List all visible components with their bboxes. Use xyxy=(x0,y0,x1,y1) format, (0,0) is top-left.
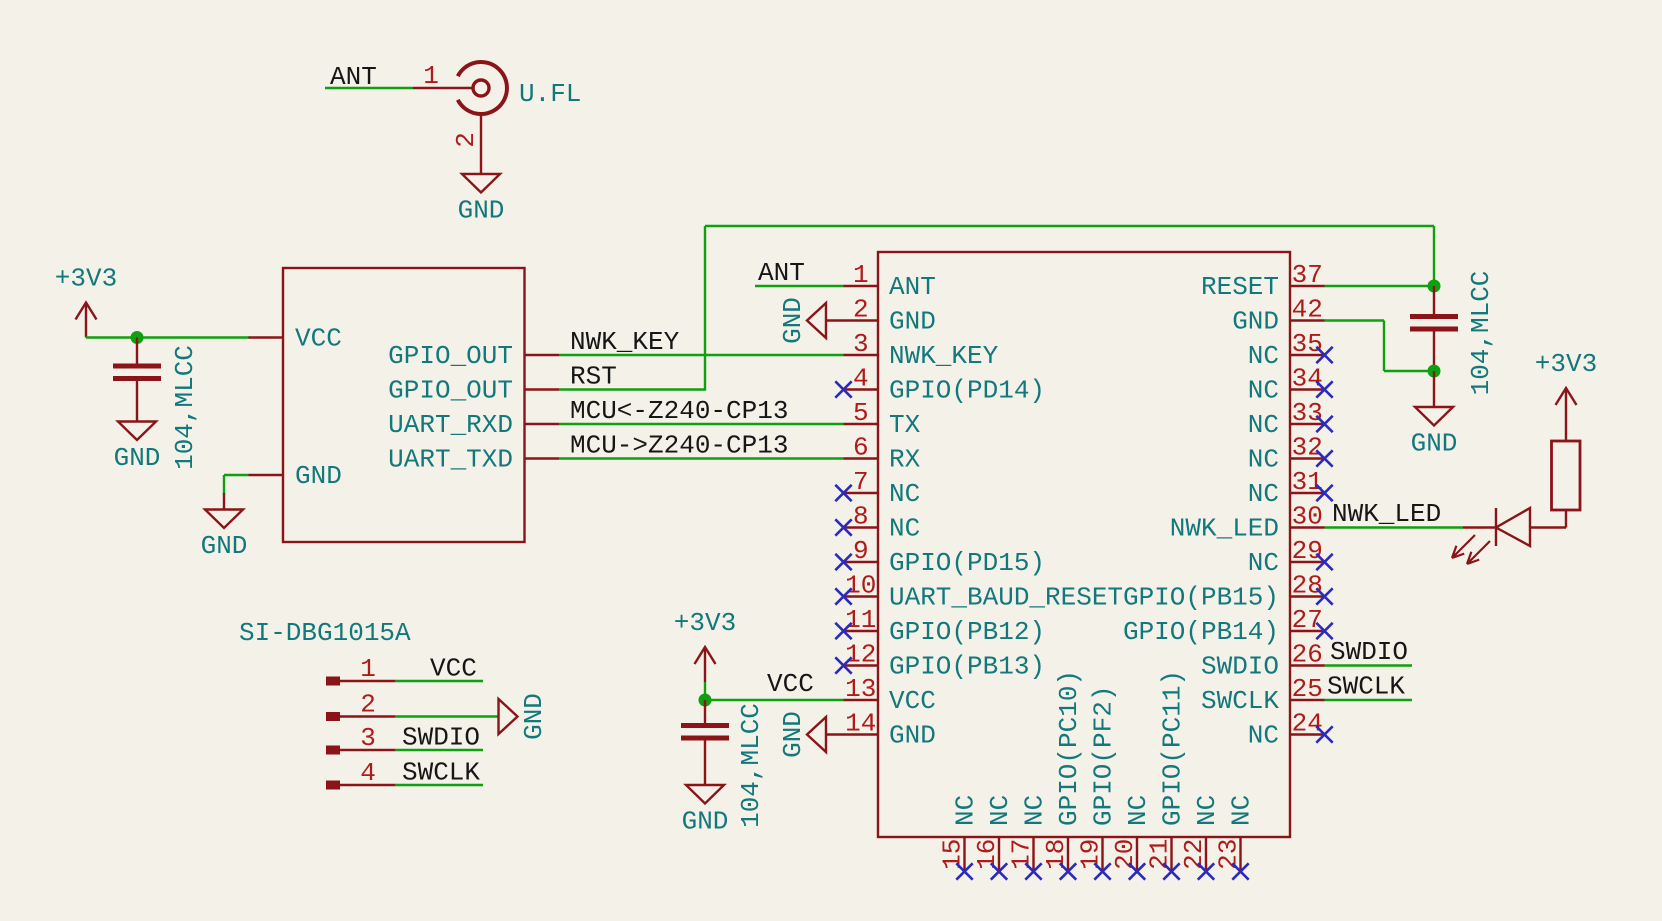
ground below J1 xyxy=(462,174,500,193)
U1 pin 14 GND (left) xyxy=(844,733,879,735)
U1 pin 10 UART_BAUD_RESET (left) xyxy=(844,595,879,597)
power +3V3 (left) xyxy=(85,305,87,338)
capacitor C3 bottom lead xyxy=(704,741,706,786)
svg-text:1: 1 xyxy=(360,654,376,684)
svg-text:VCC: VCC xyxy=(889,686,936,716)
svg-text:17: 17 xyxy=(1007,839,1037,870)
U1 pin 3 NWK_KEY (left) xyxy=(844,354,879,356)
svg-text:ANT: ANT xyxy=(330,62,377,92)
junction node +3V3/C1 xyxy=(131,331,144,344)
svg-text:15: 15 xyxy=(938,839,968,870)
svg-text:16: 16 xyxy=(972,839,1002,870)
svg-text:+3V3: +3V3 xyxy=(674,608,736,638)
svg-text:NC: NC xyxy=(1248,376,1279,406)
svg-text:GPIO(PB13): GPIO(PB13) xyxy=(889,652,1045,682)
wire J2 pin 4 net SWCLK xyxy=(395,784,483,786)
svg-text:GPIO(PB12): GPIO(PB12) xyxy=(889,617,1045,647)
svg-text:18: 18 xyxy=(1041,839,1071,870)
svg-text:GPIO(PB14): GPIO(PB14) xyxy=(1123,617,1279,647)
wire net ANT to U1 pin 1 xyxy=(755,285,844,287)
wire net SWDIO xyxy=(1325,664,1413,666)
J1 pin 1 xyxy=(413,87,473,89)
svg-text:+3V3: +3V3 xyxy=(55,264,117,294)
svg-text:10: 10 xyxy=(845,571,876,601)
ground flag J2 pin 2 xyxy=(499,699,518,734)
module U2 body xyxy=(283,268,525,542)
wire J2 pin 3 net SWDIO xyxy=(395,749,483,751)
U1 pin 35 NC (right) xyxy=(1290,354,1325,356)
svg-text:GPIO(PD15): GPIO(PD15) xyxy=(889,548,1045,578)
svg-text:19: 19 xyxy=(1076,839,1106,870)
svg-text:ANT: ANT xyxy=(758,258,805,288)
ground flag U1 pin 2 xyxy=(826,319,844,321)
junction node RESET/C2 xyxy=(1428,280,1441,293)
svg-text:RX: RX xyxy=(889,445,921,475)
svg-text:SWDIO: SWDIO xyxy=(1201,652,1279,682)
svg-text:NWK_LED: NWK_LED xyxy=(1332,499,1441,529)
LED D1 emission arrows xyxy=(1452,535,1475,558)
svg-text:13: 13 xyxy=(845,674,876,704)
wire J2 pin 2 to ground flag xyxy=(395,715,499,717)
svg-text:GPIO(PC11): GPIO(PC11) xyxy=(1158,670,1188,826)
svg-text:NC: NC xyxy=(1123,795,1153,826)
power +3V3 (right) xyxy=(1565,390,1567,423)
svg-text:NC: NC xyxy=(1248,410,1279,440)
svg-text:4: 4 xyxy=(853,364,869,394)
svg-text:GND: GND xyxy=(519,693,549,740)
svg-text:32: 32 xyxy=(1292,433,1323,463)
svg-text:29: 29 xyxy=(1292,536,1323,566)
wire +3V3 to U1 VCC pin 13 xyxy=(704,682,706,700)
svg-text:SI-DBG1015A: SI-DBG1015A xyxy=(239,618,411,648)
svg-text:GND: GND xyxy=(778,711,808,758)
svg-text:+3V3: +3V3 xyxy=(1535,349,1597,379)
U2 pin UART_TXD xyxy=(525,457,560,459)
U1 pin 12 GPIO(PB13) (left) xyxy=(844,664,879,666)
resistor R1 xyxy=(1565,423,1567,441)
svg-text:104,MLCC: 104,MLCC xyxy=(736,703,766,828)
IC U1 body xyxy=(878,252,1290,837)
wire J2 pin 1 net VCC xyxy=(395,680,483,682)
svg-text:2: 2 xyxy=(451,132,481,148)
U1 pin 8 NC (left) xyxy=(844,526,879,528)
wire net MCU<-Z240-CP13 xyxy=(559,423,844,425)
wire net NWK_LED xyxy=(1325,526,1464,528)
U1 pin 29 NC (right) xyxy=(1290,561,1325,563)
wire +3V3 to U2 VCC xyxy=(86,336,250,338)
svg-text:11: 11 xyxy=(845,605,876,635)
svg-text:33: 33 xyxy=(1292,398,1323,428)
svg-text:VCC: VCC xyxy=(295,324,342,354)
svg-text:GPIO(PB15): GPIO(PB15) xyxy=(1123,583,1279,613)
svg-text:TX: TX xyxy=(889,410,921,440)
svg-text:ANT: ANT xyxy=(889,272,936,302)
ground below C3 xyxy=(686,785,724,804)
ground lead xyxy=(223,493,225,510)
svg-text:UART_TXD: UART_TXD xyxy=(388,445,513,475)
U1 pin 37 RESET (right) xyxy=(1290,285,1325,287)
U1 pin 2 GND (left) xyxy=(844,319,879,321)
U1 pin 18 GPIO(PC10) (bottom) xyxy=(1067,837,1069,872)
svg-text:GPIO(PF2): GPIO(PF2) xyxy=(1089,686,1119,826)
capacitor C3 top lead xyxy=(704,700,706,723)
svg-text:GPIO_OUT: GPIO_OUT xyxy=(388,376,513,406)
svg-text:RST: RST xyxy=(570,362,617,392)
svg-text:NC: NC xyxy=(1192,795,1222,826)
svg-text:NC: NC xyxy=(1248,479,1279,509)
U1 pin 17 NC (bottom) xyxy=(1032,837,1034,872)
svg-text:NC: NC xyxy=(889,479,920,509)
J2 pin 4 xyxy=(326,781,340,790)
ground lead below C2 xyxy=(1433,371,1435,407)
junction node GND/C2 xyxy=(1428,365,1441,378)
svg-text:VCC: VCC xyxy=(430,654,477,684)
svg-text:26: 26 xyxy=(1292,640,1323,670)
wire net ANT to J1 xyxy=(325,87,413,89)
svg-text:RESET: RESET xyxy=(1201,272,1279,302)
U1 pin 15 NC (bottom) xyxy=(963,837,965,872)
svg-text:1: 1 xyxy=(853,260,869,290)
svg-text:MCU<-Z240-CP13: MCU<-Z240-CP13 xyxy=(570,396,788,426)
svg-text:SWCLK: SWCLK xyxy=(1201,686,1279,716)
svg-text:31: 31 xyxy=(1292,467,1323,497)
wire net RST xyxy=(559,388,705,390)
svg-text:GND: GND xyxy=(778,297,808,344)
svg-text:SWDIO: SWDIO xyxy=(1330,637,1408,667)
U2 pin GPIO_OUT (row 2) xyxy=(525,388,560,390)
U1 pin 28 GPIO(PB15) (right) xyxy=(1290,595,1325,597)
svg-text:23: 23 xyxy=(1214,839,1244,870)
ground below C1 xyxy=(118,422,156,441)
wire net NWK_KEY xyxy=(559,354,844,356)
U2 pin VCC xyxy=(249,336,284,338)
svg-text:NWK_KEY: NWK_KEY xyxy=(570,327,680,357)
capacitor C2 top lead xyxy=(1433,286,1435,314)
svg-text:7: 7 xyxy=(853,467,869,497)
svg-text:35: 35 xyxy=(1292,329,1323,359)
svg-text:NC: NC xyxy=(1020,795,1050,826)
U2 pin GPIO_OUT (row 1) xyxy=(525,354,560,356)
wire net SWCLK xyxy=(1325,699,1413,701)
svg-text:UART_RXD: UART_RXD xyxy=(388,410,513,440)
svg-text:20: 20 xyxy=(1110,839,1140,870)
U1 pin 7 NC (left) xyxy=(844,492,879,494)
svg-text:NC: NC xyxy=(889,514,920,544)
power +3V3 (middle) xyxy=(704,649,706,682)
junction node VCC/C3 xyxy=(699,694,712,707)
svg-text:104,MLCC: 104,MLCC xyxy=(1466,271,1496,396)
svg-text:6: 6 xyxy=(853,433,869,463)
svg-text:U.FL: U.FL xyxy=(519,79,581,109)
svg-text:GND: GND xyxy=(682,807,729,837)
U1 pin 19 GPIO(PF2) (bottom) xyxy=(1101,837,1103,872)
svg-text:NC: NC xyxy=(1248,341,1279,371)
svg-text:SWDIO: SWDIO xyxy=(402,723,480,753)
U1 pin 25 SWCLK (right) xyxy=(1290,699,1325,701)
U1 pin 31 NC (right) xyxy=(1290,492,1325,494)
U1 pin 16 NC (bottom) xyxy=(998,837,1000,872)
ground below C2 xyxy=(1415,407,1453,426)
U1 pin 22 NC (bottom) xyxy=(1205,837,1207,872)
U1 pin 33 NC (right) xyxy=(1290,423,1325,425)
svg-text:NC: NC xyxy=(1248,721,1279,751)
wire U2 GND to ground xyxy=(224,474,249,476)
svg-text:28: 28 xyxy=(1292,571,1323,601)
capacitor C1 lead xyxy=(136,338,138,365)
U1 pin 26 SWDIO (right) xyxy=(1290,664,1325,666)
svg-text:VCC: VCC xyxy=(767,669,814,699)
U2 pin UART_RXD xyxy=(525,423,560,425)
svg-text:104,MLCC: 104,MLCC xyxy=(170,345,200,470)
svg-text:UART_BAUD_RESET: UART_BAUD_RESET xyxy=(889,583,1123,613)
svg-text:22: 22 xyxy=(1179,839,1209,870)
U1 pin 5 TX (left) xyxy=(844,423,879,425)
capacitor C2 104,MLCC xyxy=(1410,314,1458,319)
U2 pin GND xyxy=(249,474,284,476)
svg-text:NC: NC xyxy=(951,795,981,826)
U1 pin 11 GPIO(PB12) (left) xyxy=(844,630,879,632)
J1 pin 2 xyxy=(480,114,482,174)
svg-text:SWCLK: SWCLK xyxy=(402,758,480,788)
U1 pin 9 GPIO(PD15) (left) xyxy=(844,561,879,563)
svg-text:4: 4 xyxy=(360,758,376,788)
svg-text:NWK_KEY: NWK_KEY xyxy=(889,341,999,371)
U1 pin 30 NWK_LED (right) xyxy=(1290,526,1325,528)
J2 pin 1 xyxy=(326,677,340,686)
capacitor C2 bottom lead xyxy=(1433,332,1435,372)
svg-text:27: 27 xyxy=(1292,605,1323,635)
capacitor C1 bottom lead xyxy=(136,381,138,422)
capacitor C1 104,MLCC xyxy=(113,364,161,369)
capacitor C3 104,MLCC xyxy=(681,723,729,728)
svg-text:NC: NC xyxy=(1227,795,1257,826)
wire U1 pin 42 GND to C2 xyxy=(1325,319,1385,321)
svg-text:GND: GND xyxy=(295,461,342,491)
svg-text:NWK_LED: NWK_LED xyxy=(1170,514,1279,544)
wire RESET to C2 xyxy=(1325,285,1435,287)
svg-text:GND: GND xyxy=(889,721,936,751)
svg-text:NC: NC xyxy=(1248,445,1279,475)
svg-text:3: 3 xyxy=(853,329,869,359)
U1 pin 34 NC (right) xyxy=(1290,388,1325,390)
svg-text:37: 37 xyxy=(1292,260,1323,290)
svg-text:1: 1 xyxy=(423,61,439,91)
J2 pin 2 xyxy=(326,712,340,721)
ground below U2 xyxy=(205,510,243,529)
svg-text:NC: NC xyxy=(985,795,1015,826)
U1 pin 13 VCC (left) xyxy=(844,699,879,701)
svg-text:GND: GND xyxy=(889,307,936,337)
U1 pin 24 NC (right) xyxy=(1290,733,1325,735)
svg-text:2: 2 xyxy=(853,295,869,325)
svg-text:21: 21 xyxy=(1145,839,1175,870)
svg-text:GPIO(PC10): GPIO(PC10) xyxy=(1054,670,1084,826)
ground flag U1 pin 14 xyxy=(826,733,844,735)
svg-text:24: 24 xyxy=(1292,709,1323,739)
U1 pin 42 GND (right) xyxy=(1290,319,1325,321)
svg-text:14: 14 xyxy=(845,709,876,739)
svg-text:12: 12 xyxy=(845,640,876,670)
svg-text:GPIO(PD14): GPIO(PD14) xyxy=(889,376,1045,406)
U1 pin 1 ANT (left) xyxy=(844,285,879,287)
svg-text:25: 25 xyxy=(1292,674,1323,704)
U1 pin 6 RX (left) xyxy=(844,457,879,459)
svg-text:8: 8 xyxy=(853,502,869,532)
svg-text:NC: NC xyxy=(1248,548,1279,578)
svg-text:5: 5 xyxy=(853,398,869,428)
U1 pin 21 GPIO(PC11) (bottom) xyxy=(1170,837,1172,872)
LED D1 xyxy=(1530,526,1566,528)
svg-text:30: 30 xyxy=(1292,502,1323,532)
svg-text:GND: GND xyxy=(458,196,505,226)
svg-text:MCU->Z240-CP13: MCU->Z240-CP13 xyxy=(570,431,788,461)
svg-text:GPIO_OUT: GPIO_OUT xyxy=(388,341,513,371)
svg-text:GND: GND xyxy=(1232,307,1279,337)
svg-text:3: 3 xyxy=(360,723,376,753)
svg-text:GND: GND xyxy=(114,443,161,473)
svg-text:2: 2 xyxy=(360,690,376,720)
J2 pin 3 xyxy=(326,746,340,755)
U1 pin 27 GPIO(PB14) (right) xyxy=(1290,630,1325,632)
svg-text:GND: GND xyxy=(201,531,248,561)
connector J1 U.FL coax xyxy=(458,62,507,114)
U1 pin 20 NC (bottom) xyxy=(1136,837,1138,872)
svg-text:42: 42 xyxy=(1292,295,1323,325)
svg-text:34: 34 xyxy=(1292,364,1323,394)
wire net MCU->Z240-CP13 xyxy=(559,457,844,459)
svg-text:GND: GND xyxy=(1411,429,1458,459)
U1 pin 23 NC (bottom) xyxy=(1239,837,1241,872)
U1 pin 32 NC (right) xyxy=(1290,457,1325,459)
svg-text:9: 9 xyxy=(853,536,869,566)
svg-text:SWCLK: SWCLK xyxy=(1327,672,1405,702)
U1 pin 4 GPIO(PD14) (left) xyxy=(844,388,879,390)
